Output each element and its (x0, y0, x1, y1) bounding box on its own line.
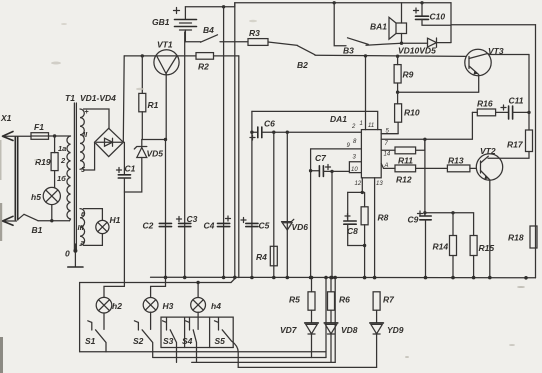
svg-text:C4: C4 (204, 221, 215, 231)
svg-text:X1: X1 (0, 113, 12, 123)
svg-text:C10: C10 (430, 12, 446, 22)
wire: DA1 pin7 line to R16 riser (381, 112, 472, 139)
connector X1 arrow top (0, 113, 31, 141)
wire: riser from bus to panel bottom line (325, 278, 327, 358)
svg-text:R13: R13 (448, 156, 464, 166)
wire: bottom distribution bus (151, 276, 536, 279)
resistor R5 (289, 278, 315, 323)
svg-text:C3: C3 (187, 214, 198, 224)
svg-text:C7: C7 (315, 153, 327, 163)
resistor R12 (381, 163, 447, 184)
wire: DA1 pin1 rail up to B2 wire (365, 56, 367, 130)
bridge rectifier VD1-VD4 (80, 93, 123, 157)
svg-text:C1: C1 (125, 164, 136, 174)
wire: top supply bus from GB1 to speaker/C10 (185, 3, 451, 7)
svg-text:S3: S3 (163, 336, 174, 346)
svg-text:III: III (78, 223, 85, 232)
wire: rail C7-right down to bus (331, 171, 333, 277)
svg-text:C5: C5 (259, 221, 270, 231)
wire: VT3 emitter to R9/R10 node (398, 91, 479, 93)
node: top bus junction at x=334.2 (333, 1, 336, 4)
transformer T1 (57, 93, 89, 251)
wire: right branch down from top bus (C10/VD10 right rail) (450, 3, 452, 43)
zener diode VD6 (282, 132, 309, 277)
svg-text:R7: R7 (383, 295, 395, 305)
wire: DA1 pin11 top link to C6 rail (252, 111, 378, 129)
lamp h2 (96, 286, 124, 329)
lamp h4 (191, 281, 221, 330)
resistor R2 (196, 53, 239, 72)
svg-text:VD6: VD6 (292, 222, 309, 232)
wire: C9 riser from pin7 node (424, 139, 426, 216)
IC DA1 (330, 114, 391, 187)
wire: top-right feed to outer right rail (451, 24, 536, 26)
lamp h5 (31, 187, 60, 222)
svg-text:B2: B2 (297, 60, 308, 70)
svg-text:R6: R6 (339, 295, 350, 305)
node: top bus junction at x=223.6 (222, 5, 225, 8)
resistor R13 (447, 156, 476, 172)
lamp h3 (143, 277, 173, 329)
switch S1 (85, 321, 106, 352)
wire: node to R14/R15 tops (425, 213, 474, 236)
wire: winding II top to bridge (84, 109, 110, 128)
svg-text:C11: C11 (509, 96, 524, 106)
resistor R11 (381, 139, 425, 165)
resistor R8 (361, 192, 389, 277)
resistor R3 (248, 28, 298, 45)
svg-text:VD10VD5: VD10VD5 (398, 46, 436, 56)
svg-text:12: 12 (355, 181, 362, 187)
wire: bridge + up to VT1 base rail (122, 56, 125, 142)
svg-text:R2: R2 (198, 62, 209, 72)
capacitor C11 (496, 96, 531, 120)
capacitor C10 (414, 3, 452, 25)
svg-text:S1: S1 (85, 336, 96, 346)
svg-text:C6: C6 (264, 119, 275, 129)
zener diode VD5 (124, 140, 163, 193)
battery GB1 (152, 7, 197, 42)
wire: rail C5/C6 down to bus (251, 111, 253, 277)
svg-text:VD5: VD5 (147, 149, 164, 159)
switch B3 (343, 38, 402, 56)
panel box: lamp/switch enclosure (80, 283, 326, 352)
svg-text:R10: R10 (404, 108, 420, 118)
capacitor C8 (344, 192, 365, 245)
capacitor C3 (177, 214, 198, 227)
wire: rail from top corner down to bus (234, 3, 236, 278)
svg-text:VT1: VT1 (157, 40, 173, 50)
svg-text:C9: C9 (408, 215, 419, 225)
wire: DA1 pins 3-10 bracket (349, 162, 361, 173)
diode VD8 (324, 323, 358, 363)
svg-text:GB1: GB1 (152, 17, 170, 27)
diode VD7 (280, 323, 318, 358)
svg-text:R18: R18 (508, 233, 524, 243)
svg-text:S4: S4 (182, 336, 193, 346)
resistor R6 (328, 278, 351, 323)
switch S5 (215, 317, 239, 367)
lamp H1 (84, 209, 121, 246)
switch B2 (297, 46, 466, 70)
svg-text:R9: R9 (403, 70, 414, 80)
switch S4 (182, 317, 197, 362)
svg-text:B1: B1 (32, 225, 43, 235)
wire: winding II bottom to bridge left (84, 142, 95, 170)
transistor VT3 (465, 46, 529, 92)
svg-text:YD9: YD9 (387, 325, 404, 335)
wire: S4 to VD8 line (192, 361, 336, 363)
resistor R10 (381, 92, 420, 133)
svg-text:1: 1 (360, 121, 363, 127)
svg-text:VD1-VD4: VD1-VD4 (80, 93, 116, 103)
wire: rail pin9/C7-left down to bus (310, 171, 312, 278)
svg-text:BA1: BA1 (370, 22, 387, 32)
wire: rail from R2 end down to bus (238, 56, 240, 278)
switch S3 (163, 317, 177, 362)
fuse F1 (31, 122, 71, 139)
svg-text:R3: R3 (249, 28, 260, 38)
svg-text:2: 2 (60, 156, 66, 165)
wire: rail C4 (+supply) down to bus (223, 7, 225, 278)
svg-text:DA1: DA1 (330, 114, 347, 124)
switch S2 (133, 321, 153, 357)
svg-text:R5: R5 (289, 295, 300, 305)
svg-text:T1: T1 (65, 93, 75, 103)
svg-text:R12: R12 (396, 175, 412, 185)
svg-text:S2: S2 (133, 336, 144, 346)
svg-text:F1: F1 (34, 122, 44, 132)
svg-text:13: 13 (376, 181, 383, 187)
capacitor C7 (309, 153, 350, 176)
svg-text:C2: C2 (143, 221, 154, 231)
svg-text:R19: R19 (35, 157, 51, 167)
svg-text:R17: R17 (507, 140, 524, 150)
loudspeaker BA1 (370, 3, 407, 45)
resistor R16 (472, 99, 495, 116)
svg-text:C8: C8 (347, 226, 358, 236)
svg-text:B3: B3 (343, 46, 354, 56)
wire: S2 to VD7 line (153, 357, 326, 359)
capacitor C6 (250, 119, 361, 141)
wire: DA1 pin5 to R10 (381, 133, 398, 135)
svg-text:R16: R16 (477, 99, 493, 109)
svg-text:H1: H1 (110, 215, 121, 225)
wire: outer right rail (535, 25, 537, 278)
svg-text:R15: R15 (479, 243, 495, 253)
capacitor C9 (408, 211, 432, 278)
svg-text:R11: R11 (398, 156, 413, 166)
resistor R18 (508, 226, 537, 248)
wire: rail C3 (battery minus) down to bus (184, 32, 186, 278)
svg-text:h4: h4 (211, 301, 221, 311)
svg-text:14: 14 (384, 152, 391, 158)
svg-text:1a: 1a (58, 144, 66, 153)
svg-text:h2: h2 (112, 301, 122, 311)
wire: X1 left rail (double line) (15, 137, 17, 220)
switch B1 (18, 214, 70, 235)
resistor R19 (35, 136, 58, 187)
svg-text:VD8: VD8 (341, 325, 358, 335)
capacitor C2 (143, 221, 172, 231)
capacitor C1 (117, 142, 136, 286)
svg-text:R8: R8 (378, 213, 389, 223)
resistor R15 (470, 236, 494, 278)
wire: DA1 pin13 rail down to bus (374, 178, 376, 278)
svg-text:11: 11 (368, 123, 374, 129)
wire: DA1 pin12 link (348, 178, 363, 193)
svg-text:1б: 1б (57, 174, 66, 183)
svg-text:B4: B4 (203, 25, 214, 35)
capacitor C5 (241, 218, 270, 231)
transistor VT2 (476, 146, 502, 278)
diode VD10 (398, 38, 451, 56)
svg-text:R4: R4 (256, 252, 267, 262)
svg-text:VD7: VD7 (280, 325, 298, 335)
resistor R7 (373, 292, 395, 323)
node: top bus junction at x=422 (420, 1, 423, 4)
node 0 and ground (65, 244, 83, 267)
wire: VT1 emitter node to R1/VD5 (142, 139, 166, 141)
switch boxes S3 S4 S5 (161, 317, 233, 347)
resistor R1 (139, 54, 159, 139)
transistor VT1 (124, 40, 196, 140)
wire: rail C2 (VT1 emitter) down to bus (165, 140, 167, 278)
svg-text:H3: H3 (163, 301, 174, 311)
capacitor C4 (204, 216, 231, 231)
resistor R17 (488, 55, 533, 159)
resistor R4 (256, 132, 277, 277)
wire: S5 to VD9 line (238, 366, 376, 368)
svg-text:0: 0 (65, 249, 70, 259)
svg-text:R14: R14 (433, 242, 449, 252)
svg-text:h5: h5 (31, 192, 41, 202)
svg-text:S5: S5 (215, 336, 226, 346)
switch B4 (185, 25, 248, 42)
svg-text:2: 2 (351, 124, 356, 130)
resistor R9 (394, 55, 414, 94)
connector X1 arrow bottom (3, 216, 14, 225)
resistor R14 (433, 211, 457, 278)
wire: DA1 pin9 line (311, 149, 362, 171)
diode VD9 (370, 323, 404, 368)
wire: rail from top bus down to B3 (334, 3, 346, 46)
svg-text:+: + (85, 109, 89, 116)
svg-text:R1: R1 (148, 100, 159, 110)
